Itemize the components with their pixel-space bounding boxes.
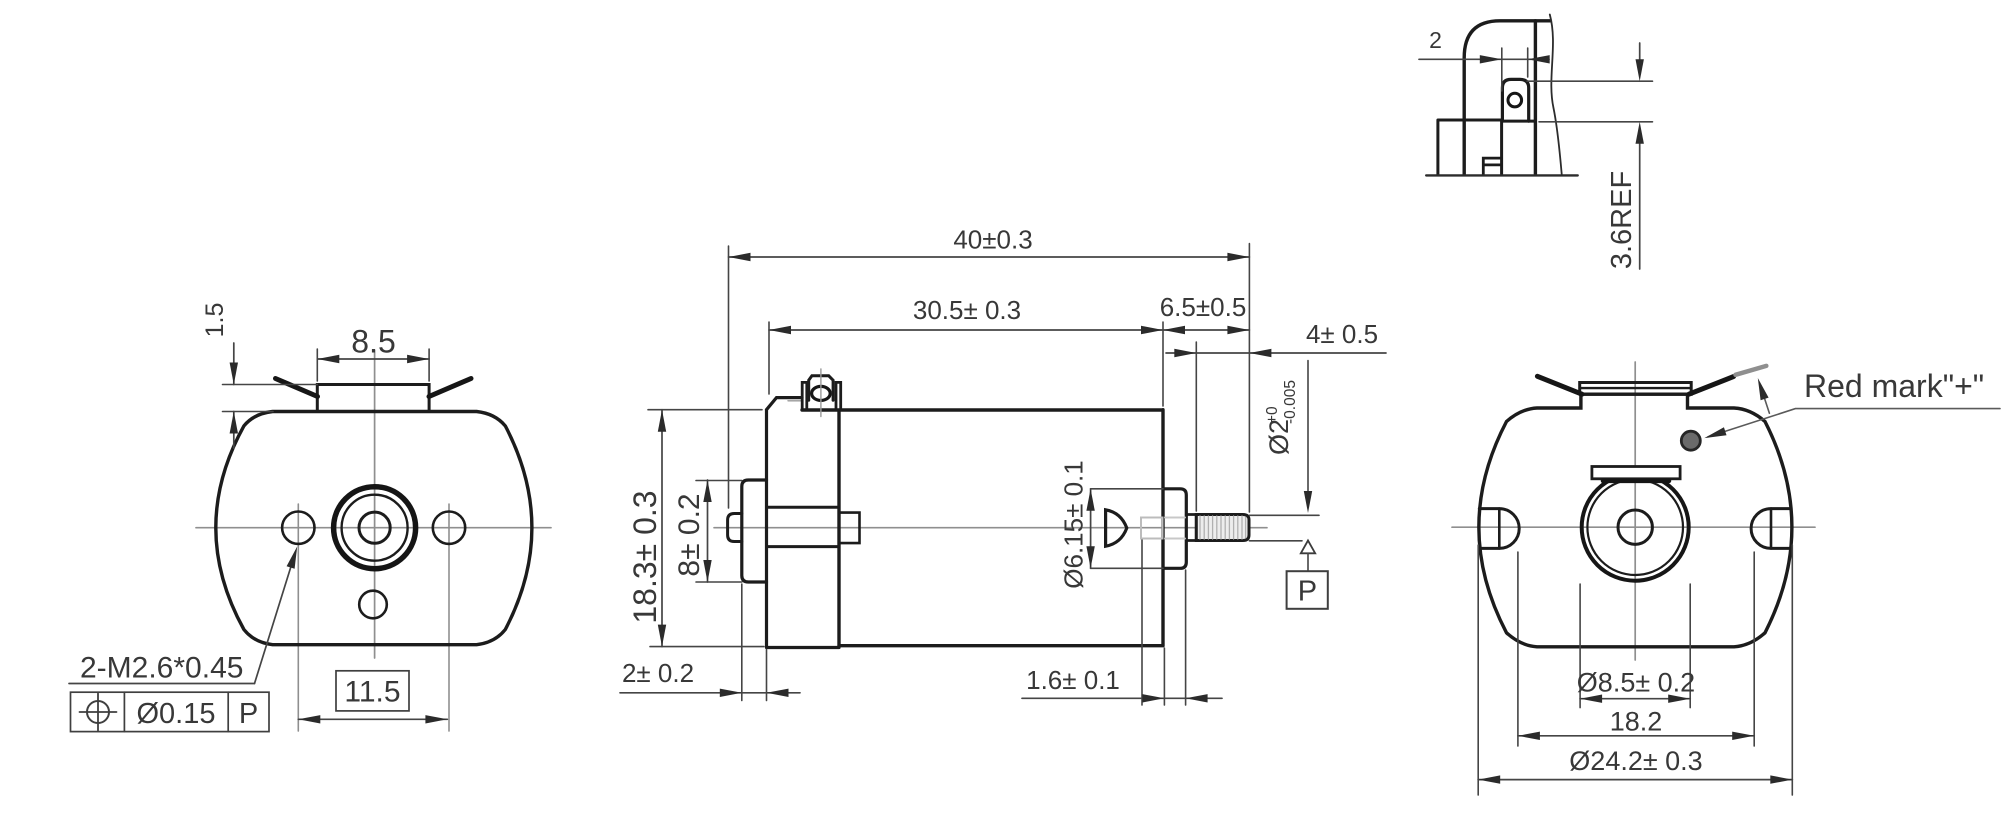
right notch boss view C bbox=[1751, 509, 1791, 549]
shaft hole view C bbox=[1618, 510, 1652, 544]
dimension 6.15 line bbox=[1090, 489, 1092, 569]
dimension 8.5 extension lines bbox=[317, 349, 429, 381]
feature control frame box bbox=[71, 692, 270, 731]
right notch chord bbox=[1770, 509, 1773, 549]
dimension 24.2 extension lines bbox=[1478, 545, 1792, 795]
ground baseline bbox=[1426, 174, 1578, 176]
bearing boss inner circle view C bbox=[1587, 479, 1683, 575]
dimension 8 extension lines bbox=[696, 481, 742, 583]
dimension 1.6 line with outside arrows bbox=[1022, 697, 1222, 699]
brush card rectangle view A bbox=[317, 385, 429, 412]
shaft diameter text (rotated with tolerances) bbox=[1264, 380, 1299, 455]
centerline vertical view C bbox=[1634, 362, 1636, 660]
terminal left post view B bbox=[802, 382, 807, 410]
bearing retainer flange left bbox=[742, 480, 767, 582]
hole centerline left (ext for 11.5) bbox=[297, 504, 299, 731]
inner bearing boss lines bbox=[767, 507, 840, 546]
small hole bottom view A bbox=[359, 591, 387, 619]
svg-text:4± 0.5: 4± 0.5 bbox=[1306, 319, 1378, 349]
terminal slot wall bbox=[1500, 121, 1503, 175]
pinion cone silhouette bbox=[1106, 510, 1127, 546]
bearing boss outer circle view C bbox=[1582, 474, 1689, 581]
centerline vertical view A bbox=[374, 350, 376, 658]
dimension 18.2 line bbox=[1518, 735, 1754, 737]
dimension 8.5 extension lines view C bbox=[1580, 584, 1690, 708]
dimension 18.2 extension lines bbox=[1518, 552, 1754, 746]
end cap chamfer edge line bbox=[788, 400, 802, 402]
dimension 3.6REF line with outside arrows bbox=[1639, 43, 1641, 269]
brush card midline view C bbox=[1580, 387, 1692, 389]
datum target triangle bbox=[1301, 541, 1315, 554]
dimension 3.6REF extension lines bbox=[1527, 81, 1653, 122]
svg-text:11.5: 11.5 bbox=[344, 676, 400, 709]
red mark dot bbox=[1681, 431, 1700, 450]
dimension 18.3 line bbox=[661, 410, 663, 647]
dimension 18.3 extension lines bbox=[648, 410, 764, 647]
svg-text:Ø0.15: Ø0.15 bbox=[137, 698, 216, 730]
dimension 1.5 line with outside arrows bbox=[233, 343, 235, 448]
red mark leader bbox=[1708, 409, 2000, 437]
cap inner wall bbox=[1534, 21, 1537, 175]
terminal right post view B bbox=[836, 382, 841, 410]
shaft stub left bbox=[728, 514, 742, 542]
arrow to ghost segment bbox=[1760, 384, 1770, 413]
dimension 2 extension lines bbox=[742, 584, 767, 701]
svg-text:P: P bbox=[239, 698, 258, 730]
svg-text:18.3± 0.3: 18.3± 0.3 bbox=[627, 490, 663, 623]
svg-text:1.6± 0.1: 1.6± 0.1 bbox=[1026, 665, 1120, 695]
datum target frame P bbox=[1287, 571, 1328, 609]
chord line under bar bbox=[1603, 479, 1669, 484]
dimension 8 line bbox=[707, 480, 709, 582]
dimension 30.5 / 6.5 line bbox=[769, 329, 1249, 331]
dimension 1.5 extension lines bbox=[223, 385, 318, 412]
dimension 6.15 extension lines bbox=[1091, 489, 1163, 569]
dimension 30.5 extension lines bbox=[769, 322, 1163, 406]
svg-text:1.5: 1.5 bbox=[201, 303, 229, 338]
left notch chord bbox=[1498, 509, 1501, 549]
axis centerline view B bbox=[714, 527, 1267, 529]
inner boss step bbox=[839, 513, 860, 544]
svg-text:18.2: 18.2 bbox=[1610, 707, 1663, 737]
dimension 4 line with outside arrows bbox=[1166, 352, 1386, 354]
shaft bottom extension line bbox=[1249, 540, 1302, 542]
centerline horizontal view C bbox=[1452, 526, 1815, 528]
motor body outline view C bbox=[1479, 394, 1792, 647]
bearing boss inner circle view A bbox=[342, 495, 408, 561]
mounting hole right M2.6 bbox=[433, 512, 465, 544]
hole centerline right (ext for 11.5) bbox=[448, 504, 450, 731]
end cap slab view B bbox=[767, 398, 840, 648]
terminal left view A bbox=[276, 379, 318, 397]
thread callout leader to left hole bbox=[255, 551, 296, 684]
svg-text:8± 0.2: 8± 0.2 bbox=[673, 493, 706, 576]
svg-text:Ø24.2± 0.3: Ø24.2± 0.3 bbox=[1569, 746, 1702, 776]
dimension 24.2 line bbox=[1478, 779, 1792, 781]
magnet clip bar view C bbox=[1592, 467, 1680, 479]
terminal right view A bbox=[429, 379, 471, 397]
dimension 40 line bbox=[729, 256, 1250, 258]
brush rib bbox=[1483, 158, 1501, 175]
svg-text:8.5: 8.5 bbox=[351, 324, 395, 360]
centerline horizontal view A bbox=[196, 527, 551, 529]
svg-text:+0: +0 bbox=[1264, 406, 1281, 424]
motor can body view B bbox=[802, 410, 1163, 646]
dimension 2 extension lines detail bbox=[1502, 48, 1528, 91]
knurled shaft bbox=[1196, 515, 1249, 541]
hidden lines in flange (faint) bbox=[1165, 518, 1185, 539]
bearing flange right bbox=[1163, 489, 1186, 569]
svg-text:-0.005: -0.005 bbox=[1282, 380, 1299, 424]
svg-text:2: 2 bbox=[1429, 27, 1442, 53]
terminal tombstone bbox=[1502, 79, 1528, 121]
position tolerance symbol bbox=[87, 701, 109, 723]
shaft top extension line bbox=[1249, 514, 1319, 516]
datum target stem bbox=[1307, 553, 1309, 571]
terminal head view B bbox=[809, 376, 833, 401]
dimension 8.5 line view C bbox=[1580, 698, 1690, 700]
knurl hatching bbox=[1200, 516, 1246, 539]
svg-text:6.5±0.5: 6.5±0.5 bbox=[1160, 292, 1247, 322]
brush card rectangle view C bbox=[1580, 383, 1692, 395]
svg-text:2-M2.6*0.45: 2-M2.6*0.45 bbox=[80, 652, 243, 685]
svg-text:40±0.3: 40±0.3 bbox=[953, 225, 1032, 255]
left notch boss view C bbox=[1479, 509, 1519, 549]
bearing boss outer circle view A bbox=[334, 487, 416, 569]
svg-text:Ø8.5± 0.2: Ø8.5± 0.2 bbox=[1577, 668, 1695, 698]
dimension 40 extension lines bbox=[729, 244, 1250, 512]
hidden commutator rectangle (faint) bbox=[1141, 518, 1163, 539]
dimension 2 line detail bbox=[1419, 58, 1549, 60]
shaft neck bbox=[1186, 515, 1196, 541]
dimension 4 extension line bbox=[1195, 342, 1197, 511]
shaft diameter leader line bbox=[1307, 361, 1309, 506]
terminal right view C bbox=[1689, 377, 1734, 395]
dimension 1.6 extension lines bbox=[1142, 540, 1186, 705]
thread callout underline bbox=[69, 683, 255, 685]
cap outer wall profile bbox=[1464, 21, 1550, 175]
shaft hole view A bbox=[359, 512, 390, 543]
terminal hole detail bbox=[1508, 93, 1522, 107]
svg-text:Red mark"+": Red mark"+" bbox=[1804, 368, 1984, 404]
break wavy line bbox=[1550, 15, 1562, 176]
dimension 11.5 line bbox=[298, 718, 447, 720]
terminal left view C bbox=[1537, 376, 1582, 394]
dimension 11.5 boxed text bbox=[336, 671, 409, 711]
terminal hole ellipse view B bbox=[812, 386, 831, 400]
outer lip step bbox=[1438, 120, 1502, 175]
mounting hole left M2.6 bbox=[282, 512, 314, 544]
svg-text:2± 0.2: 2± 0.2 bbox=[622, 658, 694, 688]
svg-text:30.5± 0.3: 30.5± 0.3 bbox=[913, 295, 1021, 325]
terminal centerline view B bbox=[820, 369, 822, 417]
red mark ghost segment bbox=[1736, 366, 1767, 375]
svg-text:Ø6.15± 0.1: Ø6.15± 0.1 bbox=[1059, 460, 1089, 588]
terminal seat ledge bbox=[1502, 120, 1535, 123]
svg-text:3.6REF: 3.6REF bbox=[1606, 171, 1638, 269]
dimension 2 line with outside arrows bbox=[620, 692, 800, 694]
svg-text:P: P bbox=[1298, 576, 1317, 608]
motor body outline view A bbox=[216, 412, 532, 645]
dimension 8.5 line bbox=[317, 358, 429, 360]
